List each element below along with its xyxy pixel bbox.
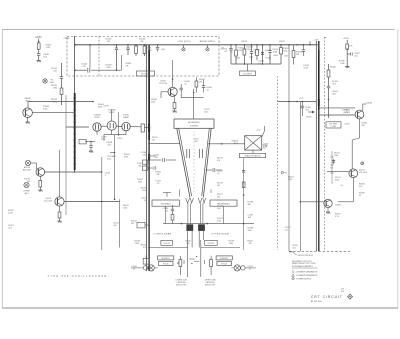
svg-text:100k: 100k [229, 243, 233, 245]
svg-text:ADJ: ADJ [51, 81, 55, 84]
resistor chain x196 [195, 77, 197, 81]
svg-text:+137: +137 [256, 130, 261, 132]
ground [37, 60, 41, 62]
svg-text:151-0124: 151-0124 [359, 172, 368, 174]
left chain x61.5 [61, 63, 63, 77]
svg-text:47k: 47k [126, 66, 129, 68]
Q1074 collector from Q1064 [359, 119, 361, 138]
transistor Q1064 [355, 110, 364, 119]
capacitor C1048 hanging [127, 45, 129, 48]
svg-text:TRACE ROTATION: TRACE ROTATION [244, 155, 261, 158]
svg-text:.01: .01 [184, 84, 187, 86]
svg-text:100k: 100k [334, 155, 338, 157]
svg-text:+1kV: +1kV [314, 40, 319, 42]
vertical wire x289 [288, 45, 290, 252]
svg-text:FOCUS: FOCUS [221, 264, 227, 266]
svg-text:1M: 1M [131, 223, 134, 225]
capacitor C1047 hanging [116, 45, 118, 48]
svg-text:.001: .001 [248, 217, 252, 219]
capacitor C1054 [251, 45, 253, 52]
left bus small stubs and labels [148, 155, 150, 157]
transistor Q1084 [324, 199, 332, 207]
caps beside neck [183, 260, 185, 264]
resistor R1057 [280, 45, 282, 48]
svg-text:220k: 220k [101, 139, 105, 141]
wire [38, 55, 40, 60]
V1034B anode wire [111, 110, 113, 122]
pot chain left x180.4 [179, 256, 181, 260]
notes item diamond [292, 271, 294, 273]
svg-text:SCREEN: SCREEN [190, 125, 199, 127]
svg-text:100k: 100k [236, 58, 240, 60]
svg-text:.001: .001 [113, 225, 117, 227]
stacked boxes right [216, 256, 232, 260]
svg-text:100k: 100k [142, 190, 146, 192]
svg-text:.0068: .0068 [273, 55, 278, 57]
title symbol [347, 294, 352, 299]
right HV bus (dark double line) [315, 41, 317, 251]
small box on left bus [137, 222, 145, 228]
capacitor C1097 stub [347, 53, 350, 55]
wire [38, 49, 40, 53]
deflection plates inside funnel [186, 149, 188, 158]
svg-text:.005: .005 [142, 154, 146, 156]
svg-text:.005: .005 [332, 84, 336, 86]
svg-text:.005: .005 [332, 94, 336, 96]
svg-text:220k: 220k [217, 221, 221, 223]
svg-text:.1: .1 [105, 175, 107, 177]
flag triangle B sweep [282, 171, 285, 174]
svg-text:+225V: +225V [103, 106, 110, 108]
transistor Q1040 [23, 108, 33, 118]
resistor R1058 [293, 45, 295, 51]
CRT funnel left wall [177, 128, 190, 197]
svg-text:151-0103: 151-0103 [44, 201, 52, 203]
svg-text:.01: .01 [249, 269, 252, 271]
wire down to funnel box [193, 89, 195, 119]
svg-text:100k: 100k [135, 243, 139, 245]
top supply bus +225V [75, 44, 318, 46]
svg-text:SELECTOR: SELECTOR [176, 285, 187, 287]
svg-text:10k: 10k [140, 41, 144, 43]
pot chain right x211.1 [210, 256, 212, 260]
svg-text:FOCUS: FOCUS [208, 243, 215, 245]
svg-text:22k: 22k [107, 41, 111, 43]
svg-text:56k: 56k [362, 125, 365, 127]
svg-text:27k: 27k [359, 186, 362, 188]
svg-text:+225V: +225V [343, 38, 350, 40]
svg-text:47k: 47k [217, 160, 220, 162]
wires Q1054 [64, 201, 119, 203]
svg-text:POINT: POINT [331, 126, 338, 128]
wire to X-box [208, 143, 245, 145]
svg-text:(DCPL): (DCPL) [344, 112, 351, 114]
funnel center dashed axis [193, 131, 195, 192]
neck walls [187, 204, 189, 224]
svg-text:470k: 470k [124, 157, 128, 159]
page top border [2, 29, 394, 31]
svg-text:.005: .005 [154, 157, 158, 159]
svg-text:100k: 100k [340, 63, 344, 65]
svg-text:220k: 220k [249, 57, 253, 59]
svg-text:100k: 100k [43, 109, 48, 111]
astig pot circX [25, 160, 30, 165]
wires Q1043 [31, 162, 37, 164]
svg-text:.047: .047 [82, 66, 87, 68]
tiny box left of cap chain [79, 139, 86, 144]
Q1064 collector stub [362, 104, 364, 111]
svg-text:.001: .001 [107, 144, 112, 146]
svg-text:D1065: D1065 [306, 117, 312, 119]
stub from right label box [223, 206, 225, 223]
svg-text:1k: 1k [341, 185, 343, 187]
svg-text:2.2M: 2.2M [8, 213, 13, 215]
diode into bus [308, 111, 314, 113]
CRT funnel right wall [203, 128, 211, 197]
C1044 vertical from bus [89, 45, 91, 68]
vertical x66 [65, 95, 67, 215]
svg-text:R1057: R1057 [279, 41, 285, 43]
resistor on x243.6 [242, 182, 245, 188]
test point above Q1074 [361, 162, 364, 165]
label box below X-box [239, 153, 265, 157]
Q1043 emitter resistor [39, 176, 41, 180]
wire y101.5 right [278, 101, 317, 103]
X-box coil [245, 136, 262, 150]
notes item circle [292, 277, 294, 279]
svg-text:1M: 1M [217, 185, 220, 187]
svg-text:100k: 100k [123, 208, 127, 210]
chain x172.5 under funnel left [172, 205, 174, 209]
indicator circX left [148, 265, 154, 271]
svg-text:B SWEEP GENERATOR: B SWEEP GENERATOR [297, 274, 319, 277]
svg-text:INTENSITY: INTENSITY [162, 258, 171, 260]
svg-text:R1053: R1053 [241, 41, 247, 43]
Q1045 collector wire [172, 79, 174, 87]
svg-text:.0068: .0068 [272, 52, 278, 54]
ground [345, 66, 349, 68]
cap to x90 on rail y70.2 [75, 69, 87, 71]
svg-text:C1046: C1046 [64, 38, 70, 40]
svg-text:.001: .001 [292, 247, 296, 249]
wire bus to funnel y143.7 [149, 143, 180, 145]
test point [183, 45, 185, 48]
cathode rail [104, 134, 126, 136]
svg-text:LV FILTER: LV FILTER [141, 74, 151, 76]
svg-text:Q1084: Q1084 [335, 205, 342, 207]
marks between gun lines [189, 258, 194, 260]
test point [207, 45, 209, 48]
left bus termination box [143, 258, 149, 264]
label box HV box [326, 122, 341, 128]
lower rail in box1 y70.2 [91, 69, 121, 71]
drop to restorer box [247, 64, 249, 71]
svg-text:56k: 56k [138, 166, 141, 168]
capacitor C1052 [230, 45, 232, 48]
svg-text:TYPE 556 OSCILLOSCOPE: TYPE 556 OSCILLOSCOPE [48, 276, 108, 278]
cluster rail left [149, 247, 188, 249]
resistor hanging x136 [135, 45, 137, 46]
svg-text:.01: .01 [224, 51, 228, 53]
svg-text:CRT CIRCUIT: CRT CIRCUIT [311, 295, 343, 299]
svg-text:ALUMINIZED: ALUMINIZED [188, 121, 200, 124]
svg-text:+225V (DCPL): +225V (DCPL) [177, 41, 191, 43]
wire into Q1084 [352, 199, 354, 202]
wire [346, 49, 348, 66]
lower rail of cluster [231, 63, 281, 65]
svg-text:Q1064: Q1064 [366, 103, 373, 105]
boxes on left bus [142, 160, 148, 164]
vertical wire x114.5 [114, 135, 116, 200]
hook and label [289, 251, 293, 253]
svg-text:ANODE SUPPLY: ANODE SUPPLY [200, 40, 216, 43]
svg-text:A/L JUN 1966: A/L JUN 1966 [311, 300, 322, 303]
svg-text:.001: .001 [8, 228, 12, 230]
svg-text:.02: .02 [165, 211, 168, 213]
intensity pot circX [24, 182, 29, 187]
svg-text:.01: .01 [144, 200, 147, 202]
resistor R1052 [235, 45, 237, 50]
vertical wire x119.5 [119, 199, 121, 247]
vertical wire x101.8 [101, 157, 103, 250]
svg-text:POWER SUPPLY: POWER SUPPLY [297, 279, 313, 281]
svg-text:LOWER BEAM: LOWER BEAM [154, 233, 172, 236]
svg-text:.02: .02 [206, 90, 209, 92]
svg-text:R1095: R1095 [330, 67, 336, 69]
wire tube row y127 [66, 126, 89, 128]
svg-text:2x10: 2x10 [107, 159, 111, 161]
label box LV FILTER [137, 71, 155, 76]
dashed shield line x324.5 [324, 37, 326, 250]
svg-text:.005: .005 [262, 148, 266, 150]
svg-text:151-0124: 151-0124 [159, 83, 167, 85]
label box left small [161, 240, 173, 245]
Q1054 emitter [59, 206, 61, 212]
svg-text:.01: .01 [133, 269, 136, 271]
svg-text:22M: 22M [288, 179, 292, 181]
svg-text:470k: 470k [106, 67, 110, 69]
junction dots dense cluster [230, 44, 232, 46]
Q1045 emitter chain [174, 96, 176, 103]
label box right small [205, 240, 218, 245]
hv adj pot circX [43, 79, 47, 83]
diode D1055 [262, 45, 264, 52]
cap x303.4 [302, 45, 304, 50]
wire top-right chain [346, 40, 348, 44]
resistor hanging x144.5 [144, 45, 146, 46]
wires to side labels [131, 267, 143, 269]
extra marks in cluster [235, 58, 237, 61]
svg-text:.0015: .0015 [303, 68, 309, 70]
svg-text:300k: 300k [335, 179, 339, 181]
cap chain x91 [85, 141, 95, 143]
Q1045 base wire [161, 91, 168, 93]
label box DC RESTORER [240, 71, 256, 76]
svg-text:.01: .01 [230, 52, 233, 54]
tube V1035 [122, 122, 130, 130]
svg-text:.001: .001 [217, 208, 221, 210]
svg-text:R16: R16 [341, 291, 344, 293]
svg-text:UPPER GUN: UPPER GUN [205, 279, 217, 281]
wire Q1074 base [327, 171, 349, 173]
cap at bus x157.5 [157, 45, 159, 47]
svg-text:47k: 47k [330, 167, 333, 169]
page left border [1, 30, 3, 309]
resistor R1054 [256, 45, 258, 50]
svg-text:47k: 47k [143, 247, 146, 249]
vertical between tubes x118.5 [118, 112, 120, 135]
X-box bottom stub [252, 150, 254, 153]
dashed enclosure box (HV supply) [67, 37, 219, 77]
vertical x243.6 [243, 158, 245, 250]
gun base pins [187, 231, 189, 240]
cap stub into funnel left [149, 159, 162, 161]
svg-text:SEMICONDUCTOR TYPES: SEMICONDUCTOR TYPES [292, 263, 316, 265]
svg-text:DC REST: DC REST [243, 73, 252, 75]
svg-text:LOWER GUN: LOWER GUN [175, 279, 187, 281]
svg-text:56k: 56k [217, 197, 220, 199]
svg-text:+175: +175 [299, 98, 304, 100]
svg-text:47k: 47k [156, 174, 159, 176]
stub from left label box [165, 206, 167, 223]
svg-text:10M: 10M [53, 88, 57, 90]
svg-text:.005: .005 [204, 112, 208, 114]
dashed internal divider x99 [98, 37, 100, 77]
svg-text:3k: 3k [359, 195, 361, 197]
page right edge shadow [397, 29, 399, 308]
svg-text:ADJUST: ADJUST [23, 168, 32, 171]
wire top-left chain [38, 39, 40, 44]
svg-text:100k: 100k [138, 182, 142, 184]
junction x114.5 [114, 152, 116, 154]
svg-text:1.5M: 1.5M [46, 47, 51, 49]
left resistor-chain bus x75 [74, 36, 76, 172]
svg-text:SELECTOR: SELECTOR [205, 285, 216, 287]
resistor R1036 [141, 124, 144, 132]
page bottom border [2, 307, 398, 309]
svg-text:THIN FILTER BOX: THIN FILTER BOX [297, 255, 313, 257]
svg-text:100k: 100k [98, 107, 102, 109]
Q1074 emitter down [352, 178, 354, 199]
plate lead right inside [210, 190, 212, 194]
resistor R1099 [346, 44, 349, 49]
svg-text:47k: 47k [248, 243, 251, 245]
tube V1034B [107, 121, 116, 130]
svg-text:CATHODE: CATHODE [206, 281, 216, 284]
svg-text:CRT: CRT [194, 141, 199, 143]
svg-text:.005: .005 [148, 50, 152, 52]
transistor Q1043 [36, 168, 45, 177]
svg-text:100k: 100k [248, 230, 252, 232]
tube V1034A [93, 123, 101, 131]
V plates upper beam [198, 198, 202, 203]
svg-text:.047: .047 [53, 71, 58, 73]
svg-text:+225V: +225V [117, 138, 123, 140]
svg-text:1M: 1M [296, 54, 299, 56]
left deflection label box [152, 200, 180, 206]
svg-text:36k: 36k [248, 204, 251, 206]
svg-text:CATHODE: CATHODE [177, 281, 187, 284]
gun leads to cluster [187, 240, 189, 277]
indicator circX right [234, 265, 240, 271]
svg-text:6DJ8: 6DJ8 [95, 117, 101, 119]
svg-text:.02: .02 [217, 173, 220, 175]
vertical wire x300.3 [299, 102, 301, 251]
svg-text:.005: .005 [161, 49, 165, 51]
notes item triangle [292, 274, 295, 276]
wire across neck y223.6 [163, 223, 254, 225]
resistor R1053 [243, 45, 245, 49]
svg-text:.02: .02 [157, 183, 160, 185]
cap on x243.6 [242, 170, 245, 172]
transistor Q1045 [168, 87, 177, 96]
tube cathode drops [96, 131, 98, 135]
cap C1046 [180, 84, 182, 88]
svg-text:UPPER BEAM: UPPER BEAM [212, 233, 230, 236]
right deflection label box [210, 200, 237, 206]
junction dots on bus [89, 44, 91, 46]
svg-text:4.7k: 4.7k [349, 45, 353, 47]
cluster rail right [201, 247, 240, 249]
svg-text:EXTERNAL ELEMENTS: EXTERNAL ELEMENTS [292, 265, 313, 268]
transistor Q1074 [349, 169, 358, 178]
svg-text:.005: .005 [305, 110, 309, 112]
dashed shield line x277.5 [277, 76, 279, 250]
svg-text:GEOM ADJ: GEOM ADJ [161, 202, 171, 205]
svg-text:1M: 1M [152, 139, 155, 141]
svg-text:FOCUS: FOCUS [163, 264, 169, 266]
svg-text:FOCUS: FOCUS [163, 243, 170, 245]
svg-text:4.7k: 4.7k [335, 216, 339, 218]
stacked boxes left [158, 256, 174, 260]
svg-text:ADJ: ADJ [26, 100, 30, 103]
svg-text:220k: 220k [247, 49, 252, 51]
capacitor C1056 [269, 45, 271, 51]
svg-text:100k: 100k [283, 51, 288, 53]
X-box top lead [262, 131, 265, 137]
resistor R1040 [37, 43, 40, 49]
Q1040 emitter to ground [27, 118, 29, 123]
svg-text:220k: 220k [151, 101, 155, 103]
svg-text:100k: 100k [238, 50, 243, 52]
svg-text:A SWEEP GENERATOR: A SWEEP GENERATOR [297, 271, 318, 274]
svg-text:.001: .001 [43, 57, 48, 59]
svg-text:6DJ8: 6DJ8 [109, 112, 115, 114]
cap x302.4 [301, 102, 303, 107]
wire Q1084 base [300, 201, 324, 203]
dashed bottom edge y251.3 [289, 250, 351, 252]
left bus junction blobs [148, 124, 150, 133]
svg-text:INTENSITY: INTENSITY [220, 258, 229, 260]
svg-text:.02: .02 [285, 230, 288, 232]
marks column x332 y150-185 [331, 151, 333, 184]
gun base blocks [186, 224, 193, 231]
V plates lower beam [186, 198, 190, 203]
svg-text:.001: .001 [354, 55, 358, 57]
svg-text:6AU8: 6AU8 [123, 116, 129, 119]
left HV bus (dark double line) [146, 45, 148, 271]
cap stub funnel right [206, 169, 213, 171]
small comp left of neck [163, 191, 171, 193]
plate lead left inside [179, 190, 181, 197]
svg-text:56k: 56k [186, 243, 189, 245]
svg-text:100k: 100k [284, 56, 288, 58]
cap chain x203.5 [203, 80, 205, 86]
svg-text:+12kV: +12kV [344, 124, 350, 126]
transistor Q1054 [55, 197, 64, 206]
wires to Q1064 [319, 107, 356, 109]
svg-text:ADJ: ADJ [25, 192, 29, 195]
